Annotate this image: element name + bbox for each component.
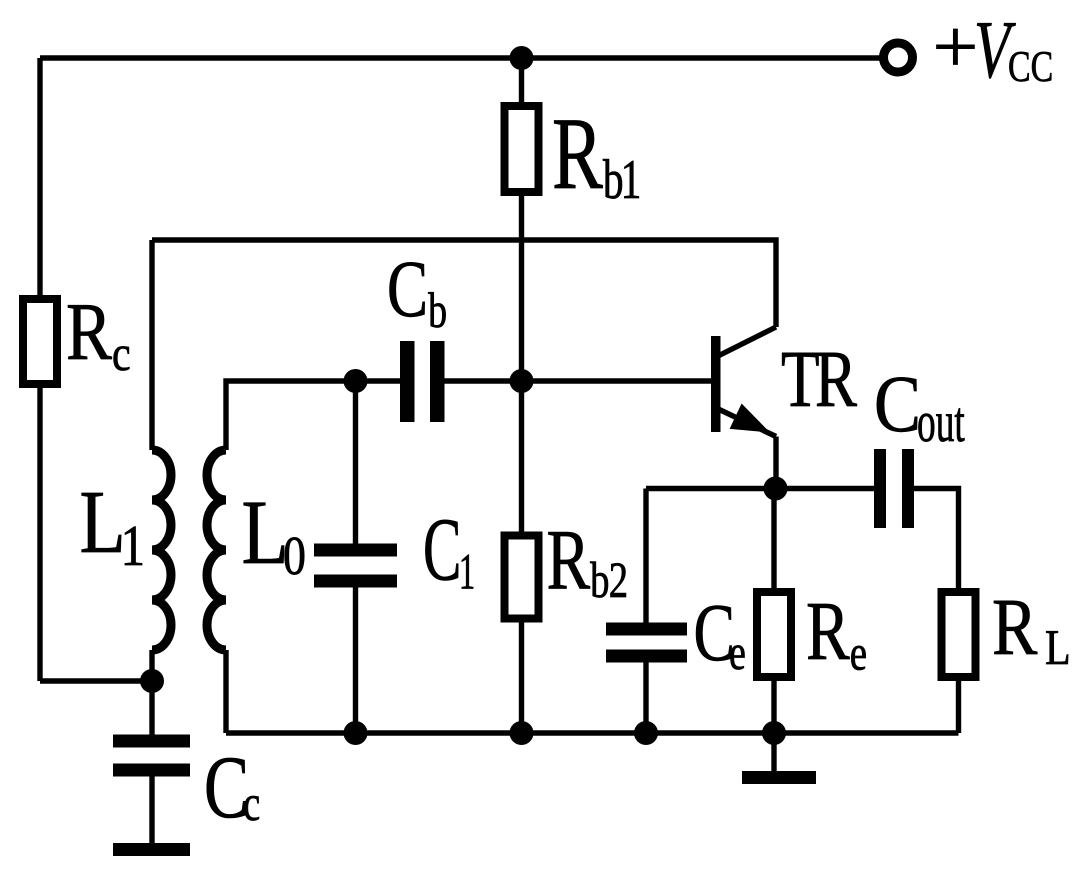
wire Re branch upper [771,489,776,589]
wire Ce branch lower [643,663,648,734]
svg-text:C: C [874,359,921,449]
wire node A horizontal [40,678,152,683]
svg-text:TR: TR [781,334,857,424]
node Rb2 ground junction [510,721,534,745]
svg-text:+: + [933,5,979,89]
wire emitter vertical [773,437,778,489]
capacitor C1 plates [314,544,397,557]
resistor Rb2 [505,536,539,619]
wire top supply rail [40,55,880,60]
svg-text:CC: CC [1008,42,1053,91]
wire Cc top lead [149,681,154,735]
capacitor Cc bottom bar [113,843,190,856]
node top rail junction [510,46,534,70]
wire L1 bottom lead [149,650,154,681]
svg-text:L1: L1 [80,473,146,578]
node A junction [140,669,164,693]
capacitor Cb plates [400,341,415,422]
node Re ground junction [762,721,786,745]
capacitor Cout plates [874,449,886,528]
wire L1 top lead [149,240,154,450]
svg-text:Rc: Rc [66,286,131,381]
resistor Re [757,592,791,677]
wire emitter rail [646,486,874,491]
wire Rb1 to base node [519,196,524,532]
node C1 ground junction [344,721,368,745]
wire C1 branch lower [353,588,358,734]
transistor TR body bar [711,336,721,432]
svg-text:Re: Re [806,585,867,681]
svg-text:Rb2: Rb2 [547,512,629,610]
svg-text:out: out [917,389,965,454]
wire collector diagonal [714,327,776,358]
wire Cout to RL [914,489,959,589]
inductor L0 [207,450,226,650]
wire C1 branch upper [353,381,358,544]
node base left junction [344,369,368,393]
svg-text:C1: C1 [423,501,475,601]
node base junction [510,369,534,393]
node emitter junction [764,477,788,501]
wire base left segment [226,381,400,450]
svg-text:Cc: Cc [204,739,260,837]
wire RL bottom lead [956,681,961,733]
capacitor Cc plates [113,735,190,748]
wire Rb2 to ground rail [519,623,524,734]
wire Rb1 branch upper [519,58,524,102]
transistor TR emitter arrow [730,404,770,433]
svg-text:L0: L0 [242,481,306,586]
wire ground stem [771,733,776,771]
wire Ce branch upper [643,489,648,623]
svg-text:Rb1: Rb1 [552,97,641,211]
wire Re branch lower [771,681,776,733]
capacitor Ce plates [606,623,687,636]
svg-text:Ce: Ce [694,587,746,680]
svg-text:Cb: Cb [387,244,447,338]
wire emitter diagonal [714,407,776,437]
inductor L1 [152,450,171,650]
wire ground rail [226,730,959,735]
ground bar [742,771,816,784]
node Ce ground junction [634,721,658,745]
resistor RL [942,592,976,677]
resistor Rb1 [505,106,539,192]
wire collector feedback horizontal [152,240,776,327]
wire Cc bottom lead [149,777,154,844]
terminal +Vcc circle [884,43,913,72]
wire L0 bottom lead [223,650,228,733]
wire base right segment [445,378,712,383]
wire left branch vertical [37,58,42,681]
resistor Rc [23,299,57,384]
svg-text:RL: RL [992,582,1071,675]
